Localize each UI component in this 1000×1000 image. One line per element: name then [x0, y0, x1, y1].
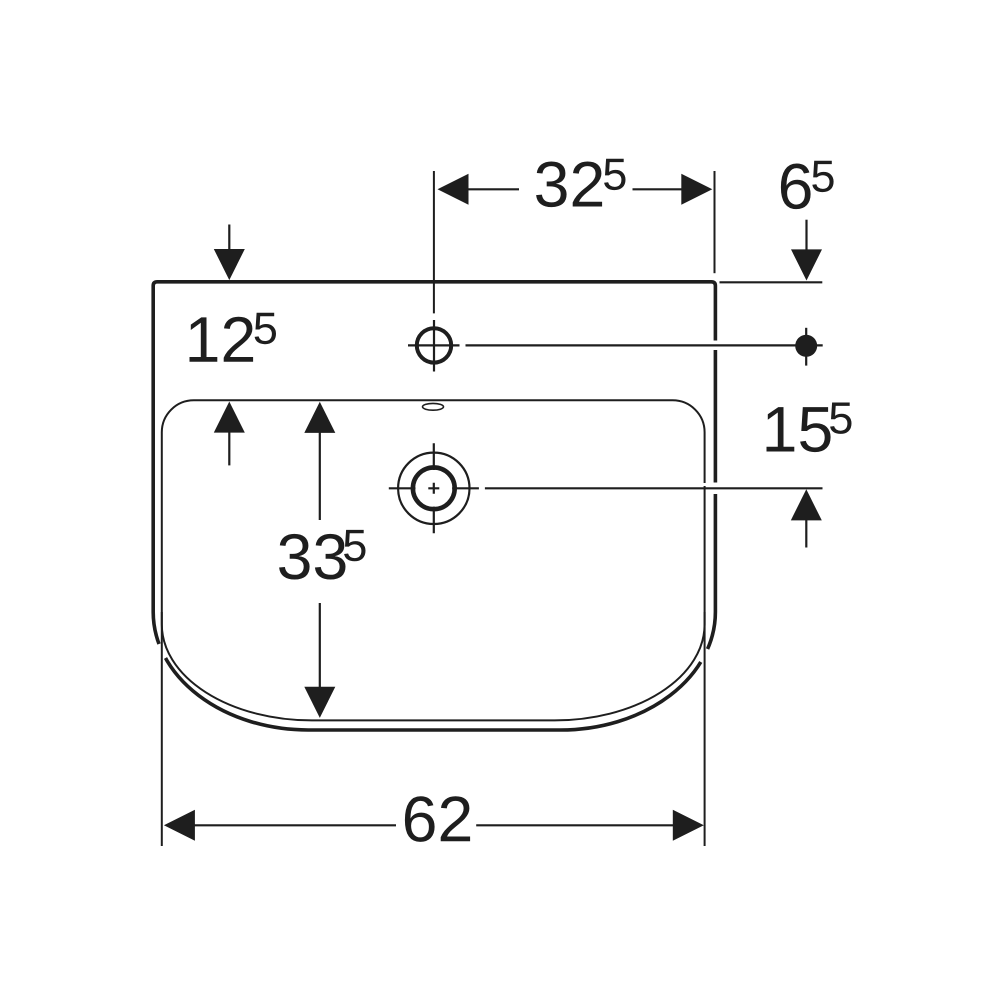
- basin outer rim outline: [153, 282, 715, 730]
- faucet reference line to right: [466, 344, 823, 346]
- gap in rim right edge at faucet line crossing: [712, 341, 720, 351]
- dimension 62: right arrowhead: [673, 810, 704, 841]
- dimension 33.5: upper up arrowhead: [304, 402, 335, 433]
- dimension 6.5: rim extension line to right: [720, 281, 823, 283]
- dimension 32.5: right extension line: [714, 171, 716, 273]
- dimension 62: right extension line: [704, 612, 706, 846]
- gap in rim right edge at drain line crossing: [712, 483, 720, 495]
- drain center mark vertical: [433, 443, 435, 533]
- label 6.5: [781, 161, 834, 209]
- dimension 6.5: arrow tail: [805, 220, 807, 251]
- dimension 12.5: lower arrow tail: [228, 431, 230, 465]
- dimension 12.5: upper down arrowhead: [214, 249, 245, 280]
- dimension 62: left arrowhead: [164, 810, 195, 841]
- drain center mark horizontal: [389, 487, 479, 489]
- tap hole position dot: [795, 335, 817, 357]
- label 33.5: [279, 530, 365, 580]
- dimension 33.5: lower tail: [319, 603, 321, 689]
- gap in bowl right edge at drain line crossing: [703, 483, 708, 486]
- dimension 15.5: arrow tail: [805, 519, 807, 548]
- dimension 15.5: up arrowhead: [791, 489, 822, 520]
- label 12.5: [190, 313, 277, 362]
- label 15.5: [767, 403, 852, 453]
- inner bowl outline: [162, 400, 705, 720]
- dimension 32.5: line segments: [466, 188, 683, 190]
- dimension 62: left extension line: [161, 612, 163, 846]
- dimension 32.5: left extension line: [433, 171, 435, 313]
- dimension 12.5: upper arrow tail: [228, 225, 230, 251]
- label 62: [405, 796, 470, 842]
- dimension 32.5: left arrowhead: [438, 174, 469, 205]
- gap in outer curve at left extension line crossing: [159, 644, 166, 658]
- dimension 6.5: down arrowhead: [791, 249, 822, 280]
- label 32.5: [536, 159, 625, 207]
- dimension 33.5: upper tail: [319, 431, 321, 520]
- drain inner ring: [413, 467, 455, 509]
- overflow slot: [423, 403, 444, 410]
- drain reference line to right: [485, 487, 823, 489]
- faucet hole circle: [417, 328, 451, 362]
- dimension 32.5: right arrowhead: [681, 174, 712, 205]
- faucet hole crosshair horizontal: [408, 344, 460, 346]
- dot crosshair vertical: [805, 328, 807, 366]
- drain outer circle: [398, 453, 469, 524]
- gap in outer curve at right extension line crossing: [701, 649, 708, 662]
- faucet hole crosshair vertical: [433, 320, 435, 372]
- dimension 33.5: lower down arrowhead: [304, 687, 335, 718]
- dimension 12.5: lower up arrowhead: [214, 402, 245, 433]
- dimension 62: line segments: [192, 824, 674, 826]
